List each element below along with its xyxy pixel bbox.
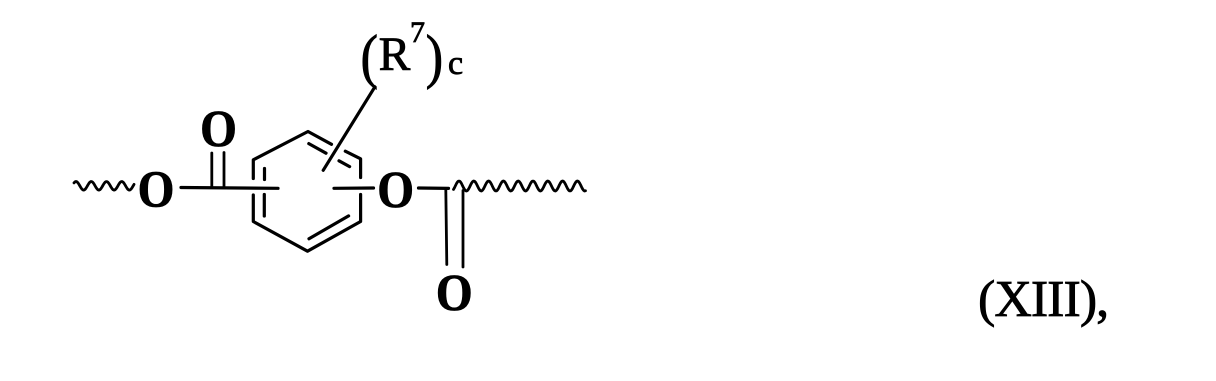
svg-text:(: ( xyxy=(361,25,379,91)
svg-text:O: O xyxy=(436,264,473,322)
carbonyl C1=O2 double bond (two vertical lines) xyxy=(210,153,213,188)
svg-text:): ) xyxy=(426,25,444,91)
polymer chain wavy bond (left) xyxy=(74,182,134,191)
benzene ring: upper-left run (left edge upper, top-left edge, top-right edge start) xyxy=(253,132,331,179)
bond O1 to carbonyl C1 and to ring (horizontal) xyxy=(181,186,278,190)
bond O3 to carbonyl C2 xyxy=(419,186,449,190)
svg-text:R: R xyxy=(379,29,411,81)
benzene inner double bond: left edge, lower segment xyxy=(263,195,266,217)
benzene inner double bond: top-right edge, segment b xyxy=(339,161,350,167)
benzene inner double bond: top-right edge, segment a xyxy=(309,144,326,154)
svg-text:O: O xyxy=(377,161,414,219)
svg-text:O: O xyxy=(200,100,237,158)
svg-text:7: 7 xyxy=(410,16,425,49)
svg-text:(XIII),: (XIII), xyxy=(978,271,1108,328)
substituent label (R7)c xyxy=(361,16,464,91)
benzene inner double bond: bottom-right edge xyxy=(309,216,349,239)
svg-text:O: O xyxy=(138,160,175,218)
carbonyl C2=O4 double bond (two vertical lines, down) xyxy=(446,189,447,265)
bond from ring to (R7)c label (diagonal) xyxy=(323,87,375,171)
bond ring to O3 (horizontal) xyxy=(334,186,374,190)
benzene ring: top-right edge after gap, upper-right corner, right edge upper xyxy=(345,151,360,177)
benzene inner double bond: left edge, upper segment xyxy=(263,169,266,180)
polymer chain wavy bond (right) xyxy=(454,181,586,191)
benzene ring: lower half (right edge lower, bottom-right, bottom-left, left edge lower) xyxy=(253,195,360,252)
svg-text:c: c xyxy=(448,45,463,82)
